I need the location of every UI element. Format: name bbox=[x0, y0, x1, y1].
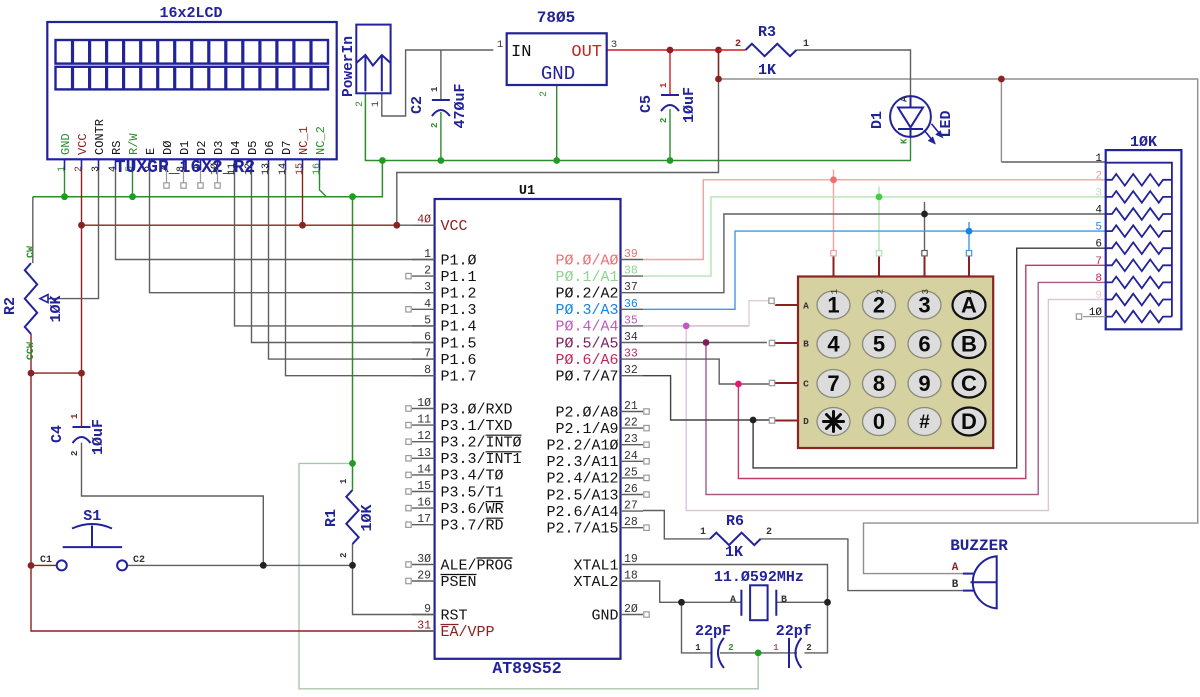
svg-text:NC_2: NC_2 bbox=[314, 126, 328, 155]
svg-text:14: 14 bbox=[278, 163, 289, 175]
network resistor element 5 bbox=[1106, 225, 1172, 237]
U1 pin 29 PSEN bbox=[412, 580, 435, 582]
node R1 reset junction bbox=[349, 562, 356, 569]
U1 pin 10 P3.0/RXD bbox=[412, 408, 435, 410]
svg-text:37: 37 bbox=[624, 281, 638, 294]
U1 pin 34 P0.5/A5 bbox=[621, 342, 644, 344]
svg-text:R2: R2 bbox=[2, 297, 19, 315]
svg-text:16: 16 bbox=[312, 163, 323, 175]
svg-text:22pF: 22pF bbox=[695, 623, 731, 640]
wire 7805 GND pin2 to bus bbox=[556, 85, 558, 161]
LCD pin 1 stub bbox=[64, 159, 66, 170]
svg-text:4: 4 bbox=[1095, 205, 1102, 217]
svg-text:D7: D7 bbox=[280, 141, 294, 155]
svg-text:3: 3 bbox=[921, 289, 931, 294]
svg-text:D: D bbox=[961, 409, 977, 434]
svg-text:3: 3 bbox=[611, 39, 617, 51]
node crystal caps GND bbox=[755, 650, 762, 657]
LCD unconnected data pin stub bbox=[183, 170, 185, 183]
svg-text:35: 35 bbox=[624, 314, 638, 327]
svg-text:1: 1 bbox=[803, 39, 809, 50]
keypad column 2 stub bbox=[878, 256, 880, 276]
svg-text:P3.2/INTØ: P3.2/INTØ bbox=[441, 435, 522, 452]
network resistor element 4 bbox=[1106, 208, 1172, 220]
svg-text:P1.6: P1.6 bbox=[441, 352, 477, 369]
wire LCD R/W pin5 to rail bbox=[132, 170, 134, 197]
LCD pin 6 stub bbox=[149, 159, 151, 170]
U1 pin 21 P2.0/A8 bbox=[621, 411, 644, 413]
resistor R1 10K bbox=[346, 490, 358, 544]
network pin 10 no-connect stub bbox=[1083, 316, 1106, 318]
svg-text:1K: 1K bbox=[725, 544, 743, 561]
wire GND down to R1 pin1 bbox=[352, 197, 354, 487]
svg-text:PØ.1/A1: PØ.1/A1 bbox=[555, 269, 618, 286]
svg-text:D2: D2 bbox=[195, 141, 209, 155]
node GND rail junction bbox=[349, 193, 356, 200]
svg-text:2: 2 bbox=[766, 527, 772, 538]
R2 wiper arrow bbox=[40, 295, 48, 303]
svg-text:P3.3/INT1: P3.3/INT1 bbox=[441, 451, 522, 468]
svg-text:1: 1 bbox=[659, 82, 669, 88]
buzzer BUZZER bbox=[963, 556, 997, 608]
svg-text:1: 1 bbox=[70, 413, 80, 419]
wire row D loop to network pin6 bbox=[753, 248, 1106, 468]
node LCD GND pin1 bbox=[61, 193, 68, 200]
U1 pin 33 P0.6/A6 bbox=[621, 358, 644, 360]
keypad button D bbox=[953, 408, 986, 436]
node VCC LCD pin2 bbox=[78, 222, 85, 229]
svg-text:A: A bbox=[730, 595, 736, 606]
U1 pin 18 XTAL2 bbox=[621, 580, 644, 582]
wire LCD NC_2 to GND rail bbox=[320, 170, 353, 197]
wire LCD D7 to U1 P1.7 bbox=[286, 170, 435, 376]
svg-text:13: 13 bbox=[261, 163, 272, 175]
svg-text:9: 9 bbox=[424, 603, 431, 616]
node VCC R2 CCW bbox=[28, 370, 35, 377]
node C2 GND bbox=[438, 157, 445, 164]
wire LCD D4 to U1 P1.4 bbox=[235, 170, 435, 326]
svg-text:GND: GND bbox=[591, 607, 618, 624]
wire keypad col4 riser bbox=[968, 222, 970, 251]
wire C4 pin2 to reset net bbox=[82, 443, 264, 566]
svg-text:9: 9 bbox=[1095, 290, 1102, 302]
node C5 GND bbox=[667, 157, 674, 164]
svg-text:9: 9 bbox=[918, 371, 930, 396]
svg-text:P2.2/A1Ø: P2.2/A1Ø bbox=[546, 438, 618, 455]
svg-text:R/W: R/W bbox=[127, 133, 141, 155]
wire VCC into U1 pin 40 bbox=[397, 224, 435, 226]
svg-text:39: 39 bbox=[624, 248, 638, 261]
wire C5 pin1 to OUT bbox=[669, 50, 671, 95]
svg-text:XTAL2: XTAL2 bbox=[573, 574, 618, 591]
U1 pin 27 P2.6/A14 bbox=[621, 510, 644, 512]
keypad button A bbox=[953, 291, 986, 319]
svg-text:D6: D6 bbox=[263, 141, 277, 155]
wire R1 pin1 lead bbox=[352, 487, 354, 490]
svg-text:2Ø: 2Ø bbox=[624, 603, 638, 616]
wire VCC link to 7805 OUT net bbox=[397, 50, 719, 225]
wire row C loop to network pin7 bbox=[738, 265, 1105, 478]
keypad button 6 bbox=[908, 330, 941, 358]
svg-text:22pf: 22pf bbox=[776, 623, 812, 640]
svg-text:P2.5/A13: P2.5/A13 bbox=[546, 487, 618, 504]
svg-text:19: 19 bbox=[624, 553, 638, 566]
svg-text:K: K bbox=[900, 138, 910, 144]
svg-text:D1: D1 bbox=[869, 111, 886, 129]
U1 pin 12 P3.2/INT0 bbox=[412, 441, 435, 443]
U1 pin 2 P1.1 bbox=[412, 275, 435, 277]
svg-text:4: 4 bbox=[424, 298, 431, 311]
node GND bus branch bbox=[379, 157, 386, 164]
node keypad col4 junction bbox=[966, 228, 973, 235]
svg-text:3: 3 bbox=[91, 166, 102, 172]
wire R3 node down bbox=[718, 50, 720, 79]
svg-text:BUZZER: BUZZER bbox=[950, 537, 1008, 555]
svg-text:U1: U1 bbox=[519, 184, 535, 199]
wire P0.7 to keypad row D bbox=[643, 376, 773, 420]
LCD pin 11 stub bbox=[234, 159, 236, 170]
keypad button 1 bbox=[817, 291, 850, 319]
svg-text:1ØuF: 1ØuF bbox=[90, 419, 107, 455]
svg-text:2: 2 bbox=[728, 643, 733, 653]
svg-text:P1.Ø: P1.Ø bbox=[441, 252, 477, 269]
node VCC U1 pin40 bbox=[393, 222, 400, 229]
svg-text:RST: RST bbox=[441, 607, 468, 624]
U1 pin 6 P1.5 bbox=[412, 342, 435, 344]
svg-text:A: A bbox=[803, 301, 809, 312]
node VCC S1 C1 bbox=[28, 562, 35, 569]
LCD pin 15 stub bbox=[302, 159, 304, 170]
keypad row B stub bbox=[775, 342, 798, 344]
keypad row D stub bbox=[775, 420, 798, 422]
node VCC NC_1 bbox=[299, 222, 306, 229]
wire VCC rail to U1 pin40 bbox=[82, 224, 397, 226]
node keypad col2 junction bbox=[876, 194, 883, 201]
svg-text:2: 2 bbox=[70, 451, 80, 456]
svg-text:D4: D4 bbox=[229, 141, 243, 155]
svg-text:11: 11 bbox=[417, 414, 431, 427]
wire keypad col3 riser bbox=[924, 202, 926, 251]
svg-text:28: 28 bbox=[624, 516, 638, 529]
svg-text:PØ.5/A5: PØ.5/A5 bbox=[555, 335, 618, 352]
node R1 GND branch bbox=[349, 460, 356, 467]
svg-text:CW: CW bbox=[26, 246, 37, 258]
U1 pin 17 P3.7/RD bbox=[412, 524, 435, 526]
network resistor element 8 bbox=[1106, 277, 1172, 289]
keypad button 7 bbox=[817, 370, 850, 398]
regulator 7805 bbox=[507, 33, 607, 85]
connector PowerIn bbox=[356, 25, 390, 94]
svg-text:C2: C2 bbox=[133, 555, 145, 566]
svg-text:B: B bbox=[952, 579, 959, 591]
wire P0.1 to keypad col2 and network pin3 bbox=[643, 197, 1106, 276]
U1 pin 4 P1.3 bbox=[412, 308, 435, 310]
svg-text:4: 4 bbox=[966, 289, 976, 294]
svg-text:GND: GND bbox=[541, 63, 575, 85]
svg-text:C5: C5 bbox=[638, 95, 655, 113]
svg-text:EA/VPP: EA/VPP bbox=[441, 624, 495, 641]
svg-text:P3.6/WR: P3.6/WR bbox=[441, 501, 504, 518]
svg-text:TUXGR_16X2_R2: TUXGR_16X2_R2 bbox=[115, 158, 255, 178]
wire LCD D5 to U1 P1.5 bbox=[252, 170, 435, 343]
svg-text:3: 3 bbox=[1095, 187, 1102, 199]
svg-text:34: 34 bbox=[624, 331, 638, 344]
network common rail pin 1 bbox=[1106, 163, 1172, 317]
wire LCD D6 to U1 P1.6 bbox=[269, 170, 435, 359]
LCD pin 9 stub bbox=[200, 159, 202, 170]
wire R3 pin2 lead bbox=[719, 49, 746, 51]
LCD pin 5 stub bbox=[132, 159, 134, 170]
svg-text:C2: C2 bbox=[409, 96, 426, 114]
svg-text:A: A bbox=[961, 293, 977, 318]
svg-text:2: 2 bbox=[873, 293, 885, 318]
svg-text:P3.4/TØ: P3.4/TØ bbox=[441, 468, 504, 485]
U1 pin 5 P1.4 bbox=[412, 325, 435, 327]
svg-text:ALE/PROG: ALE/PROG bbox=[441, 557, 513, 574]
wire R2 bottom lead bbox=[30, 334, 32, 373]
svg-text:1Ø: 1Ø bbox=[417, 397, 431, 410]
svg-text:VCC: VCC bbox=[441, 218, 468, 235]
U1 pin 15 P3.5/T1 bbox=[412, 491, 435, 493]
wire C4 pin1 lead bbox=[81, 373, 83, 427]
svg-text:6: 6 bbox=[1095, 239, 1102, 251]
svg-text:2: 2 bbox=[659, 118, 669, 123]
keypad 4x4 bbox=[798, 277, 993, 449]
svg-text:7: 7 bbox=[424, 348, 431, 361]
svg-text:R1: R1 bbox=[323, 509, 340, 527]
wire P0.2 to keypad col3 and network pin4 bbox=[643, 214, 1106, 293]
LCD pin 8 stub bbox=[183, 159, 185, 170]
svg-text:32: 32 bbox=[624, 364, 638, 377]
network resistor element 2 bbox=[1106, 174, 1172, 186]
svg-text:6: 6 bbox=[424, 331, 431, 344]
svg-text:OUT: OUT bbox=[571, 43, 602, 62]
wire P0.3 to keypad col4 and network pin5 bbox=[643, 231, 1106, 309]
wire network pin1 riser bbox=[1000, 79, 1002, 162]
wire S1 C2 to R1 pin2 bbox=[127, 564, 352, 566]
wire GND rail under LCD bbox=[33, 196, 353, 198]
svg-text:26: 26 bbox=[624, 483, 638, 496]
keypad row A stub bbox=[775, 304, 798, 306]
wire C5 pin2 to GND bus bbox=[669, 109, 671, 161]
svg-text:DØ: DØ bbox=[161, 141, 175, 155]
svg-text:PØ.2/A2: PØ.2/A2 bbox=[555, 286, 618, 303]
wire crystal A lead bbox=[682, 601, 742, 603]
U1 pin 1 P1.0 bbox=[412, 259, 435, 261]
wire LED cathode to GND bus bbox=[910, 137, 912, 161]
wire to network pin 1 bbox=[1001, 161, 1105, 163]
svg-text:VCC: VCC bbox=[76, 133, 90, 155]
svg-text:PØ.6/A6: PØ.6/A6 bbox=[555, 352, 618, 369]
svg-text:15: 15 bbox=[295, 163, 306, 175]
U1 pin 11 P3.1/TXD bbox=[412, 424, 435, 426]
svg-text:3: 3 bbox=[918, 293, 930, 318]
svg-text:1: 1 bbox=[430, 86, 440, 92]
U1 pin 40 VCC bbox=[412, 224, 435, 226]
LED D1 bbox=[890, 96, 931, 137]
svg-text:NC_1: NC_1 bbox=[297, 126, 311, 155]
svg-text:3Ø: 3Ø bbox=[417, 553, 431, 566]
capacitor C? 22pf right bbox=[789, 638, 801, 668]
node VCC distribution bbox=[715, 76, 722, 83]
svg-text:1K: 1K bbox=[758, 62, 776, 79]
keypad button 3 bbox=[908, 291, 941, 319]
svg-text:1: 1 bbox=[424, 248, 431, 261]
U1 pin 25 P2.4/A12 bbox=[621, 477, 644, 479]
wire R3 pin1 to LED anode bbox=[796, 50, 910, 96]
wire row B loop to network pin8 bbox=[706, 282, 1106, 494]
wire VCC to S1 C1 bbox=[31, 564, 57, 566]
svg-text:6: 6 bbox=[918, 332, 930, 357]
network resistor element 10 bbox=[1106, 311, 1172, 323]
node keypad col3 junction bbox=[921, 211, 928, 218]
node C4 reset junction bbox=[260, 562, 267, 569]
potentiometer R2 10K bbox=[25, 263, 37, 334]
keypad button 0 bbox=[863, 408, 896, 436]
wire VCC loop to buzzer pin A bbox=[719, 79, 1198, 574]
wire row A loop to network pin9 bbox=[686, 300, 1105, 511]
LCD pin 10 stub bbox=[217, 159, 219, 170]
svg-text:CCW: CCW bbox=[26, 342, 37, 360]
network resistor element 7 bbox=[1106, 260, 1172, 272]
svg-text:5: 5 bbox=[1095, 222, 1102, 234]
LED arrows bbox=[924, 124, 942, 143]
U1 pin 32 P0.7/A7 bbox=[621, 375, 644, 377]
svg-text:CONTR: CONTR bbox=[93, 119, 107, 155]
svg-text:GND: GND bbox=[59, 133, 73, 155]
keypad button 4 bbox=[817, 330, 850, 358]
network resistor element 9 bbox=[1106, 294, 1172, 306]
svg-text:PowerIn: PowerIn bbox=[341, 36, 357, 97]
wire 7805 OUT to R3 bbox=[607, 49, 719, 51]
svg-text:13: 13 bbox=[417, 447, 431, 460]
keypad button # bbox=[908, 408, 941, 436]
wire P0.5 to keypad row B bbox=[643, 342, 767, 344]
svg-text:PØ.3/A3: PØ.3/A3 bbox=[555, 302, 618, 319]
svg-text:P2.7/A15: P2.7/A15 bbox=[546, 521, 618, 538]
svg-text:P1.1: P1.1 bbox=[441, 269, 477, 286]
svg-text:11.Ø592MHz: 11.Ø592MHz bbox=[714, 569, 804, 586]
svg-text:7: 7 bbox=[1095, 256, 1102, 268]
node keypad row D junction bbox=[750, 417, 757, 424]
wire C2 pin2 to GND bus bbox=[440, 112, 442, 161]
svg-text:R6: R6 bbox=[726, 513, 744, 530]
wire 22pF caps midpoint bbox=[720, 652, 797, 654]
wire R6 pin2 to buzzer pin B bbox=[761, 539, 963, 591]
svg-text:22: 22 bbox=[624, 417, 638, 430]
node keypad row C junction bbox=[735, 381, 742, 388]
wire reset net to U1 RST bbox=[353, 565, 435, 614]
svg-text:17: 17 bbox=[417, 513, 431, 526]
svg-text:23: 23 bbox=[624, 433, 638, 446]
node keypad row B junction bbox=[703, 339, 710, 346]
node LCD R/W pin5 bbox=[129, 193, 136, 200]
svg-text:IN: IN bbox=[511, 43, 531, 62]
U1 pin 38 P0.1/A1 bbox=[621, 275, 644, 277]
LCD pin 2 stub bbox=[81, 159, 83, 170]
keypad row C stub bbox=[775, 382, 798, 384]
LCD unconnected data pin stub bbox=[166, 170, 168, 183]
svg-text:2: 2 bbox=[74, 166, 85, 172]
LCD pin 12 stub bbox=[251, 159, 253, 170]
LCD unconnected data pin stub bbox=[200, 170, 202, 183]
wire row A jog bbox=[749, 301, 770, 326]
svg-text:P3.Ø/RXD: P3.Ø/RXD bbox=[441, 401, 513, 418]
U1 pin 16 P3.6/WR bbox=[412, 507, 435, 509]
wire VCC from LCD pin2 down to C4 bbox=[81, 170, 83, 373]
svg-text:P3.5/T1: P3.5/T1 bbox=[441, 484, 504, 501]
svg-text:C1: C1 bbox=[40, 555, 52, 566]
svg-text:P2.6/A14: P2.6/A14 bbox=[546, 504, 618, 521]
svg-text:2: 2 bbox=[424, 265, 431, 278]
svg-text:P1.3: P1.3 bbox=[441, 302, 477, 319]
svg-text:XTAL1: XTAL1 bbox=[573, 557, 618, 574]
LCD unconnected data pin stub bbox=[217, 170, 219, 183]
svg-text:4: 4 bbox=[827, 332, 840, 357]
svg-text:21: 21 bbox=[624, 400, 638, 413]
keypad button 9 bbox=[908, 370, 941, 398]
wire LCD NC_1 to VCC rail bbox=[302, 170, 304, 225]
wire C2 pin1 bbox=[440, 50, 442, 100]
node network pin1 branch bbox=[998, 76, 1005, 83]
svg-text:1: 1 bbox=[339, 478, 349, 484]
svg-text:8: 8 bbox=[424, 364, 431, 377]
svg-text:P2.3/A11: P2.3/A11 bbox=[546, 454, 618, 471]
node 7805 GND bbox=[553, 157, 560, 164]
wire R1 pin2 lead bbox=[352, 544, 354, 565]
U1 pin 36 P0.3/A3 bbox=[621, 308, 644, 310]
svg-text:2: 2 bbox=[430, 123, 440, 128]
svg-text:B: B bbox=[803, 339, 809, 350]
svg-text:78Ø5: 78Ø5 bbox=[537, 9, 575, 27]
U1 pin 26 P2.5/A13 bbox=[621, 494, 644, 496]
svg-text:PØ.4/A4: PØ.4/A4 bbox=[555, 319, 618, 336]
U1 pin 24 P2.3/A11 bbox=[621, 460, 644, 462]
svg-text:RS: RS bbox=[110, 141, 124, 155]
svg-text:16x2LCD: 16x2LCD bbox=[159, 5, 222, 22]
crystal X1 11.0592MHz bbox=[741, 585, 776, 620]
node crystal B junction bbox=[824, 599, 831, 606]
svg-text:P3.1/TXD: P3.1/TXD bbox=[441, 418, 513, 435]
node keypad row A junction bbox=[683, 323, 690, 330]
U1 pin 28 P2.7/A15 bbox=[621, 527, 644, 529]
U1 pin 37 P0.2/A2 bbox=[621, 292, 644, 294]
U1 pin 13 P3.3/INT1 bbox=[412, 457, 435, 459]
svg-text:D3: D3 bbox=[212, 141, 226, 155]
keypad button C bbox=[953, 370, 986, 398]
keypad button B bbox=[953, 330, 986, 358]
svg-text:2: 2 bbox=[806, 643, 811, 653]
svg-text:A: A bbox=[952, 562, 959, 574]
svg-text:47ØuF: 47ØuF bbox=[452, 83, 469, 128]
wire LCD RS to U1 P1.0 bbox=[116, 170, 435, 260]
wire PowerIn pin1 to 7805 IN bbox=[382, 50, 494, 116]
LCD display 16x2LCD bbox=[47, 22, 336, 159]
svg-text:P1.5: P1.5 bbox=[441, 335, 477, 352]
node keypad col1 junction bbox=[830, 176, 837, 183]
LCD pin 14 stub bbox=[285, 159, 287, 170]
svg-text:18: 18 bbox=[624, 570, 638, 583]
svg-text:C4: C4 bbox=[49, 425, 66, 443]
svg-text:PSEN: PSEN bbox=[441, 574, 477, 591]
svg-text:P1.4: P1.4 bbox=[441, 319, 477, 336]
wire P0.6 to keypad row C bbox=[643, 359, 771, 384]
LCD pin 16 stub bbox=[319, 159, 321, 170]
svg-text:B: B bbox=[961, 332, 977, 357]
node crystal A junction bbox=[678, 599, 685, 606]
LCD pin 3 stub bbox=[98, 159, 100, 170]
wire LCD CONTR to R2 wiper bbox=[50, 170, 98, 299]
